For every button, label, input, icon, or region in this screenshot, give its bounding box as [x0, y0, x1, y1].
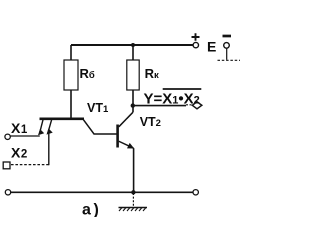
svg-text:VT2: VT2 [140, 115, 161, 129]
svg-text:E: E [207, 38, 216, 54]
svg-text:Y=X1•X2: Y=X1•X2 [144, 91, 200, 108]
svg-text:VT1: VT1 [87, 101, 109, 115]
svg-text:a): a) [82, 201, 101, 217]
